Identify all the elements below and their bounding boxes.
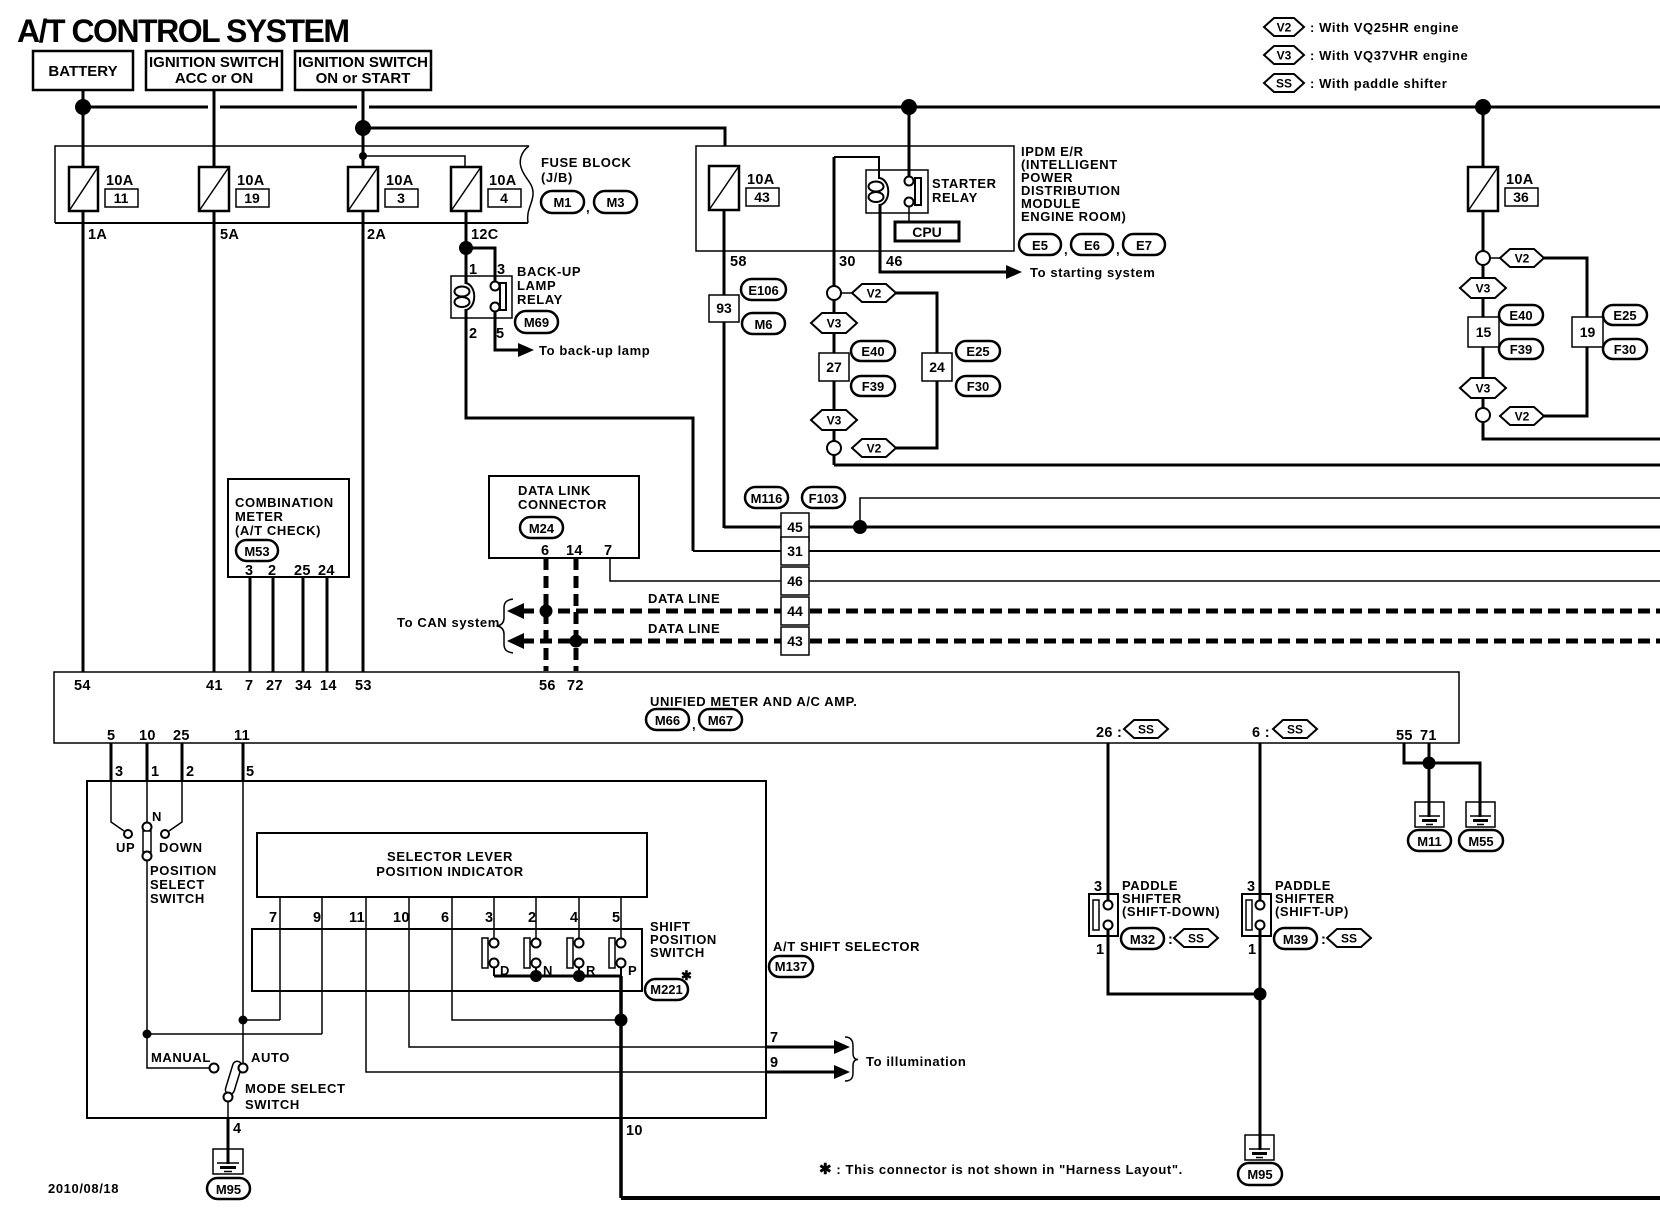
svg-text:V2: V2 <box>867 442 882 456</box>
svg-text:44: 44 <box>787 603 803 619</box>
connector V3 upper <box>811 313 857 333</box>
svg-text:2: 2 <box>528 910 536 926</box>
wire meter pin2 <box>272 577 275 672</box>
wire pin4 to ground <box>227 1118 230 1164</box>
node MANUAL contact <box>210 1064 219 1073</box>
switch D <box>482 938 510 978</box>
svg-text:6 :: 6 : <box>1252 725 1270 741</box>
svg-text:10A: 10A <box>1506 172 1534 188</box>
connector M39 with SS <box>1274 928 1371 949</box>
connector E5 <box>1019 234 1061 255</box>
svg-text:MODE SELECT: MODE SELECT <box>245 1081 346 1096</box>
svg-text:10: 10 <box>393 910 410 926</box>
svg-text:(SHIFT-UP): (SHIFT-UP) <box>1275 904 1349 919</box>
svg-text:7: 7 <box>269 910 277 926</box>
pin 26 with SS <box>1096 720 1168 741</box>
wire fuse43 drop <box>723 210 726 528</box>
connector M6 <box>742 313 785 334</box>
wire 41 run <box>213 211 216 672</box>
wire ind pin3 <box>493 897 495 939</box>
svg-text:(A/T CHECK): (A/T CHECK) <box>235 523 321 538</box>
svg-text:IGNITION SWITCH: IGNITION SWITCH <box>298 54 428 71</box>
IPDM E/R box <box>696 146 1014 251</box>
combination meter box M53 <box>228 479 349 579</box>
wire pole to wire9 branch <box>147 1033 322 1035</box>
svg-text:RELAY: RELAY <box>932 190 978 205</box>
wire pole to MANUAL <box>147 1034 209 1068</box>
svg-text:ACC or ON: ACC or ON <box>175 70 253 87</box>
svg-text:F39: F39 <box>862 379 884 394</box>
svg-text:43: 43 <box>754 189 770 205</box>
wire pin55 drop <box>1404 743 1480 803</box>
svg-text:7: 7 <box>245 678 253 694</box>
wire pin26 drop <box>1107 743 1110 901</box>
connector M32 with SS <box>1121 928 1218 949</box>
svg-text:✱ : This connector is not show: ✱ : This connector is not shown in "Harn… <box>819 1161 1183 1178</box>
svg-text:M137: M137 <box>775 959 808 974</box>
svg-text:3: 3 <box>485 910 493 926</box>
connector E7 <box>1116 234 1165 257</box>
connector box 19 <box>1572 317 1603 347</box>
svg-text:19: 19 <box>244 190 260 206</box>
node chain36 circle bottom <box>1476 408 1490 422</box>
connector box 44 <box>781 597 809 625</box>
svg-text:(SHIFT-DOWN): (SHIFT-DOWN) <box>1122 904 1220 919</box>
connector box 46 <box>781 567 809 595</box>
connector M67 <box>692 709 742 732</box>
svg-text:: With VQ25HR engine: : With VQ25HR engine <box>1310 20 1459 35</box>
wire ind pin6 <box>452 897 621 1020</box>
svg-text:58: 58 <box>730 254 747 270</box>
svg-text:3: 3 <box>115 764 123 780</box>
svg-text:E25: E25 <box>966 344 989 359</box>
svg-text:5: 5 <box>496 326 504 342</box>
svg-text:E106: E106 <box>748 283 778 298</box>
svg-text:SWITCH: SWITCH <box>650 945 705 960</box>
node CAN L junction <box>570 635 583 648</box>
node chain circle bottom <box>827 441 841 455</box>
svg-text:11: 11 <box>114 190 129 206</box>
svg-text:11: 11 <box>349 910 365 926</box>
svg-text:3: 3 <box>497 262 505 278</box>
paddle shifter shift-up M39 <box>1242 879 1271 958</box>
wire pin11 drop <box>242 743 245 781</box>
wire pin5 drop <box>110 743 113 781</box>
wire pin10 output <box>619 976 623 1198</box>
node N junction <box>530 970 542 982</box>
wire coil pin30 run <box>833 157 836 287</box>
wire DLC pin6 dashed <box>544 558 549 671</box>
svg-text:DOWN: DOWN <box>159 840 203 855</box>
label STARTER RELAY <box>932 176 997 205</box>
svg-text:24: 24 <box>318 563 335 579</box>
connector F39 <box>851 376 895 396</box>
fuse F4 10A <box>451 167 521 211</box>
unified meter and A/C amp box <box>54 672 1459 743</box>
node battery junction <box>75 99 91 115</box>
svg-text:5A: 5A <box>220 227 239 243</box>
ground M95 right <box>1238 1135 1282 1185</box>
svg-text:M11: M11 <box>1417 834 1442 849</box>
svg-text:N: N <box>152 809 162 824</box>
svg-text:3: 3 <box>397 190 405 206</box>
wire relay pin5 to back-up lamp <box>495 311 520 350</box>
connector M1 <box>541 191 584 213</box>
connector box 27 <box>819 353 849 381</box>
svg-text:M66: M66 <box>655 713 680 728</box>
connector M137 <box>769 956 813 977</box>
wire ind pin2 <box>535 897 537 939</box>
fuse F3 10A <box>348 167 418 211</box>
svg-text:7: 7 <box>604 543 612 559</box>
svg-text:M67: M67 <box>708 713 733 728</box>
svg-text:SELECT: SELECT <box>150 877 205 892</box>
node fuse4 tap <box>359 152 367 160</box>
svg-text:CPU: CPU <box>912 224 942 240</box>
fuse F11 10A <box>69 167 138 211</box>
svg-text:31: 31 <box>787 543 803 559</box>
wire V2 branch right side <box>1544 258 1587 416</box>
label FUSE BLOCK <box>541 155 632 185</box>
connector M221 <box>645 979 688 1000</box>
wire 498 branch <box>860 498 1660 527</box>
connector E40 <box>851 341 895 361</box>
connector box 24 <box>922 353 952 381</box>
wire ind pin4 <box>578 897 580 939</box>
connector F30 <box>956 376 1000 396</box>
svg-text:SS: SS <box>1276 77 1292 91</box>
svg-text:10A: 10A <box>386 173 414 189</box>
wire ind pin5 <box>620 897 622 939</box>
svg-text:IGNITION SWITCH: IGNITION SWITCH <box>149 54 279 71</box>
fuse F43 10A <box>709 166 779 210</box>
node bus2 junction <box>355 120 371 136</box>
svg-text:SS: SS <box>1287 723 1303 737</box>
wire V2 branch right <box>896 293 937 448</box>
svg-text:M221: M221 <box>650 982 683 997</box>
svg-text:12C: 12C <box>471 227 499 243</box>
connector box 43 <box>781 627 809 655</box>
connector box 93 <box>709 295 739 322</box>
svg-text:E5: E5 <box>1032 238 1048 253</box>
ground M95 left <box>207 1149 250 1199</box>
node fuse36 junction <box>1475 99 1491 115</box>
svg-text:M53: M53 <box>244 544 269 559</box>
svg-text:2: 2 <box>186 764 194 780</box>
svg-text:,: , <box>1064 242 1068 257</box>
connector E6 <box>1064 234 1113 257</box>
svg-text:56: 56 <box>539 678 556 694</box>
svg-text:POSITION INDICATOR: POSITION INDICATOR <box>376 864 524 879</box>
svg-text:2: 2 <box>469 326 477 342</box>
wire starter relay feed <box>908 107 911 177</box>
node starter junction <box>901 99 917 115</box>
connector V2 bottom right <box>1500 407 1544 425</box>
svg-text:P: P <box>628 963 637 978</box>
svg-text:93: 93 <box>716 300 732 316</box>
connector E25 <box>956 341 1000 361</box>
pin 6 with SS <box>1252 720 1317 741</box>
label MODE SELECT SWITCH <box>245 1081 346 1112</box>
connector V3 lower right <box>1460 378 1506 398</box>
svg-text:2: 2 <box>268 563 276 579</box>
wire ON drop <box>362 90 365 167</box>
wire N stub <box>535 967 537 976</box>
svg-text:V2: V2 <box>867 287 882 301</box>
connector M69 <box>515 311 558 333</box>
svg-text:STARTER: STARTER <box>932 176 997 191</box>
svg-text:SS: SS <box>1341 932 1357 946</box>
wire coil top link <box>834 157 879 179</box>
ignition switch ON box <box>295 51 431 90</box>
svg-text:M69: M69 <box>524 315 549 330</box>
svg-text:DATA LINK: DATA LINK <box>518 483 591 498</box>
wire R stub <box>578 967 580 976</box>
node pole junction <box>143 1030 152 1039</box>
wire 54 run <box>82 211 85 672</box>
node lever contact <box>224 1093 233 1102</box>
connector V2 top <box>852 284 896 302</box>
svg-text:41: 41 <box>206 678 223 694</box>
ground M55 <box>1459 802 1503 851</box>
svg-text:3: 3 <box>1247 879 1255 895</box>
node P output junction <box>615 1014 628 1027</box>
node R junction <box>573 970 585 982</box>
svg-text:CONNECTOR: CONNECTOR <box>518 497 607 512</box>
wire ind pin7 <box>279 897 281 1020</box>
data link connector box <box>489 476 639 559</box>
label BACK-UP LAMP RELAY <box>517 264 581 307</box>
svg-text:F39: F39 <box>1510 342 1532 357</box>
wire meter pin3 <box>249 577 252 672</box>
svg-text:E40: E40 <box>1509 308 1532 323</box>
legend V3 <box>1264 46 1468 64</box>
svg-text:26 :: 26 : <box>1096 725 1122 741</box>
svg-text:10A: 10A <box>489 173 517 189</box>
wire pin71 drop <box>1428 743 1431 816</box>
brace illumination <box>845 1037 858 1081</box>
wire chain output run <box>834 464 1660 467</box>
svg-text:1: 1 <box>1096 942 1104 958</box>
wire relay pin3 feed <box>466 248 495 282</box>
svg-text:M32: M32 <box>1130 932 1155 947</box>
wire 31 run <box>693 550 1660 552</box>
connector V2 top right <box>1500 249 1544 267</box>
arrow data line 44 <box>507 603 524 619</box>
svg-text:FUSE BLOCK: FUSE BLOCK <box>541 155 632 170</box>
svg-text:25: 25 <box>173 728 190 744</box>
svg-text:E40: E40 <box>861 344 884 359</box>
svg-text:F30: F30 <box>1614 342 1636 357</box>
wire illumination 9 <box>766 1071 836 1074</box>
arrow data line 43 <box>507 633 524 649</box>
svg-text:10: 10 <box>139 728 156 744</box>
connector M116 <box>745 487 788 508</box>
connector E40 right <box>1499 305 1543 325</box>
wire bottom run <box>621 1196 1660 1200</box>
wire fuse36 drop and chain <box>1482 107 1485 432</box>
ignition switch ACC box <box>146 51 282 90</box>
wire ind pin11 <box>366 897 766 1072</box>
wire contact to CPU <box>908 206 910 222</box>
fuse F36 10A <box>1468 167 1538 211</box>
svg-text:25: 25 <box>294 563 311 579</box>
svg-text:10A: 10A <box>237 173 265 189</box>
svg-text:MANUAL: MANUAL <box>151 1050 211 1065</box>
wire battery drop <box>82 90 85 167</box>
connector F39 right <box>1499 339 1543 359</box>
wire mode select pin4 <box>227 1101 229 1118</box>
label PADDLE SHIFTER SHIFT-UP <box>1275 878 1349 919</box>
svg-text:RELAY: RELAY <box>517 292 563 307</box>
svg-text:1: 1 <box>151 764 159 780</box>
svg-text:9: 9 <box>313 910 321 926</box>
svg-text:SS: SS <box>1138 723 1154 737</box>
svg-text:V2: V2 <box>1515 410 1530 424</box>
ground M11 <box>1408 802 1451 851</box>
svg-text:BACK-UP: BACK-UP <box>517 264 581 279</box>
svg-text:46: 46 <box>886 254 903 270</box>
wire bus1 <box>83 106 208 109</box>
svg-text:(J/B): (J/B) <box>541 170 573 185</box>
connector E106 <box>741 279 786 300</box>
connector V3 upper right <box>1460 278 1506 298</box>
node AUTO contact <box>239 1064 248 1073</box>
label POSITION SELECT SWITCH <box>150 863 217 906</box>
svg-text:M116: M116 <box>751 491 783 506</box>
wire pin25 drop <box>181 743 184 781</box>
mode select lever <box>224 1060 243 1095</box>
wire relay pin2 run <box>466 318 693 551</box>
svg-text:5: 5 <box>246 764 254 780</box>
svg-text:5: 5 <box>107 728 115 744</box>
connector box 45 <box>781 513 809 541</box>
svg-text:COMBINATION: COMBINATION <box>235 495 334 510</box>
svg-text:To illumination: To illumination <box>866 1054 966 1069</box>
connector V3 lower <box>811 410 857 430</box>
svg-text:V3: V3 <box>1476 282 1491 296</box>
fuse block J/B box <box>55 146 533 223</box>
position select switch <box>111 781 203 861</box>
svg-text::: : <box>1168 932 1173 948</box>
node paddle junction <box>1254 988 1267 1001</box>
wire V2 top link right <box>1490 257 1501 259</box>
svg-text:72: 72 <box>567 678 584 694</box>
svg-text:M24: M24 <box>529 521 555 536</box>
wire 12C run <box>465 211 468 284</box>
arrow to starting system <box>1006 265 1022 279</box>
svg-text:10A: 10A <box>106 173 134 189</box>
switch N <box>524 938 553 978</box>
wire meter pin25 <box>302 577 305 672</box>
svg-text:1A: 1A <box>88 227 107 243</box>
svg-text:1: 1 <box>469 262 477 278</box>
svg-text:M55: M55 <box>1468 834 1493 849</box>
svg-text:E7: E7 <box>1136 238 1152 253</box>
wire bus2 <box>363 128 725 166</box>
svg-text:6: 6 <box>441 910 449 926</box>
svg-text:53: 53 <box>355 678 372 694</box>
svg-text:LAMP: LAMP <box>517 278 556 293</box>
wire pin10 drop <box>146 743 149 781</box>
wire fuse4 feed <box>363 156 465 167</box>
connector box 31 <box>781 537 809 565</box>
wire auto to wire7 branch <box>243 1019 280 1021</box>
svg-text:27: 27 <box>826 359 842 375</box>
selector lever position indicator box <box>257 833 647 897</box>
svg-text:M95: M95 <box>1247 1167 1272 1182</box>
svg-text:M95: M95 <box>216 1182 241 1197</box>
wire 30 chain <box>833 287 836 465</box>
node 45 junction <box>853 520 867 534</box>
svg-text::: : <box>1321 932 1326 948</box>
wire D stub <box>493 967 495 976</box>
svg-text:6: 6 <box>541 543 549 559</box>
node auto junction <box>239 1016 248 1025</box>
wire ind pin10 <box>409 897 766 1047</box>
svg-text:UNIFIED METER AND A/C AMP.: UNIFIED METER AND A/C AMP. <box>650 694 857 709</box>
legend SS <box>1264 74 1447 92</box>
svg-text:DATA LINE: DATA LINE <box>648 591 720 606</box>
wire data line 43 <box>522 639 1660 644</box>
svg-text:DATA LINE: DATA LINE <box>648 621 720 636</box>
svg-text:11: 11 <box>234 728 250 744</box>
svg-text:10: 10 <box>626 1123 643 1139</box>
svg-text:AUTO: AUTO <box>251 1050 290 1065</box>
svg-text:M6: M6 <box>754 317 772 332</box>
svg-text:V2: V2 <box>1277 21 1292 35</box>
wire illumination 7 <box>766 1046 836 1049</box>
label SHIFT POSITION SWITCH <box>650 919 717 960</box>
svg-text:M1: M1 <box>553 195 571 210</box>
connector M3 <box>586 191 637 215</box>
svg-text:2010/08/18: 2010/08/18 <box>48 1181 119 1196</box>
svg-text:M3: M3 <box>606 195 624 210</box>
wire meter pin24 <box>326 577 329 672</box>
arrow to back-up lamp <box>518 343 534 357</box>
wire coil pin46 run <box>880 204 1007 272</box>
wire 46 run <box>610 558 1660 581</box>
node 12C junction <box>459 241 473 255</box>
shift position switch box <box>252 929 642 991</box>
paddle shifter shift-down M32 <box>1089 879 1118 958</box>
svg-text:4: 4 <box>233 1121 241 1137</box>
svg-text:A/T SHIFT SELECTOR: A/T SHIFT SELECTOR <box>773 939 920 954</box>
svg-text:E6: E6 <box>1084 238 1100 253</box>
node 55-71 junction <box>1423 757 1436 770</box>
svg-text:E25: E25 <box>1613 308 1636 323</box>
svg-text:3: 3 <box>245 563 253 579</box>
wire 53 run <box>362 211 365 672</box>
svg-text:2A: 2A <box>367 227 386 243</box>
svg-text:POSITION: POSITION <box>150 863 217 878</box>
svg-text:30: 30 <box>839 254 856 270</box>
connector box 15 <box>1468 317 1499 347</box>
wire paddle up output <box>1259 930 1262 1150</box>
battery box <box>33 51 133 90</box>
CPU box <box>895 222 959 241</box>
svg-text:14: 14 <box>566 543 583 559</box>
wire V2 top link <box>841 292 853 294</box>
svg-text:71: 71 <box>1420 728 1437 744</box>
wire chain 36 output <box>1483 425 1660 439</box>
svg-text:45: 45 <box>787 519 803 535</box>
svg-text:: With VQ37VHR engine: : With VQ37VHR engine <box>1310 48 1468 63</box>
wire DLC pin14 dashed <box>574 558 579 671</box>
svg-text:UP: UP <box>116 840 135 855</box>
svg-text:3: 3 <box>1094 879 1102 895</box>
svg-text:To back-up lamp: To back-up lamp <box>539 343 650 358</box>
